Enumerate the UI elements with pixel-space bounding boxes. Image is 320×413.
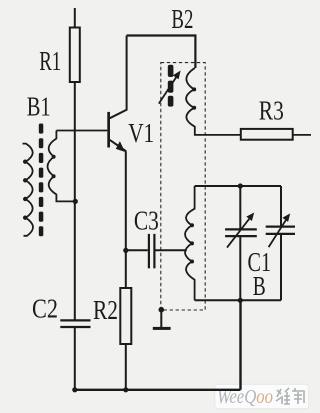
B1 primary tap dots: [23, 160, 27, 220]
label C1: [248, 247, 272, 277]
wire: junction to C3 left plate: [126, 249, 148, 251]
wire: junction to R2: [125, 250, 127, 288]
junction dot emitter/C3/R2: [123, 248, 128, 253]
transformer B1 secondary winding (right, 3 bumps): [48, 131, 76, 202]
tank coil cusp dots: [190, 223, 194, 263]
svg-text:R3: R3: [259, 95, 284, 125]
wire: tank bottom to main bottom rail: [239, 300, 241, 390]
label C2: [32, 294, 58, 324]
svg-text:R1: R1: [39, 46, 61, 76]
svg-text:R2: R2: [93, 295, 118, 325]
variable capacitor C1 right section: bottom wire: [280, 234, 282, 300]
shield box (dashed): [161, 63, 205, 310]
variable capacitor C1 left section: bottom wire: [239, 236, 241, 300]
transformer B1 primary winding (left, 5 bumps): [23, 144, 33, 236]
label V1: [128, 118, 154, 148]
C1 left section arrow: [227, 213, 254, 248]
junction dot tank bottom: [238, 298, 243, 303]
junction dot tank top: [238, 183, 243, 188]
transistor V1 base bar: [107, 112, 110, 148]
label B2: [171, 4, 193, 34]
resistor R2: [120, 288, 131, 344]
wire: emitter down to junction: [125, 151, 127, 250]
watermark 维库 glyphs: [276, 388, 304, 404]
wire: tank bottom rail: [195, 299, 281, 301]
label R1: [39, 46, 61, 76]
label R3: [259, 95, 284, 125]
capacitor C3: [149, 234, 155, 268]
variable capacitor C1 left section: top wire: [239, 186, 241, 229]
svg-text:C3: C3: [134, 206, 159, 236]
variable capacitor C1 left section plates: [225, 229, 257, 236]
wire: C3 right plate to tank coil tap: [156, 249, 187, 251]
resistor R3: [241, 129, 293, 140]
variable capacitor C1 right section: top wire: [280, 186, 282, 227]
label C3: [134, 206, 159, 236]
wire: top rail collector to B2: [127, 36, 196, 69]
ground: [153, 310, 171, 330]
label B1: [27, 91, 51, 121]
junction dot B1 secondary / left rail: [73, 199, 78, 204]
transistor V1 collector lead: [110, 36, 127, 119]
svg-text:B: B: [253, 271, 266, 301]
junction dot R2/bottom rail: [123, 387, 128, 392]
capacitor C2: [60, 320, 90, 327]
wire: base lead from B1 to V1: [56, 130, 107, 132]
wire: C2 bottom to bottom rail: [74, 328, 76, 390]
wire: tank top rail: [195, 185, 281, 187]
resistor R1: [70, 28, 80, 83]
label R2: [93, 295, 118, 325]
wire: left vertical rail (R1 bottom to C2 top): [74, 82, 76, 320]
tank coil B secondary (4 bumps): [185, 186, 195, 300]
label B: [253, 271, 266, 301]
wire: R3 output stub: [293, 134, 311, 136]
wire: supply stub above R1: [74, 8, 76, 28]
svg-text:B1: B1: [27, 91, 51, 121]
variable capacitor C1 right section plates: [266, 227, 295, 234]
junction dot bottom-left: [72, 387, 77, 392]
watermark WeeQoo: [217, 386, 273, 408]
svg-text:B2: B2: [171, 4, 193, 34]
svg-text:V1: V1: [128, 118, 154, 148]
junction dot shield/ground: [159, 307, 165, 313]
B2 primary cusp dots: [192, 87, 196, 109]
transistor V1 emitter lead with arrow: [110, 140, 126, 152]
watermark box: [215, 384, 309, 409]
transformer B1 core (dashed): [39, 124, 44, 237]
transformer B2 primary winding (3 bumps): [186, 68, 241, 135]
B1 secondary cusp dots: [52, 155, 56, 179]
C1 right section arrow: [269, 213, 291, 247]
B2 adjustable-core arrow: [159, 71, 181, 104]
wire: bottom rail: [75, 389, 241, 391]
wire: R2 bottom to bottom rail: [125, 344, 127, 390]
svg-text:C2: C2: [32, 294, 58, 324]
transformer B2 core (dashed): [168, 65, 174, 107]
